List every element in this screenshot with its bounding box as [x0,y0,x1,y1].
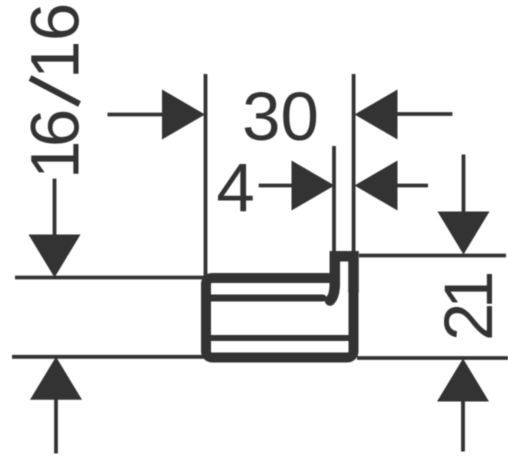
profile inner wall upper [210,295,323,302]
profile outline: outer body [206,256,354,357]
dim 4 left arrow tail [259,184,293,188]
profile hook (top right) [330,256,354,300]
top-right horizontal extension line y=255.5 [359,254,506,258]
dim 21 down-arrow line [462,155,466,215]
bottom-right up-arrow tail [461,400,465,452]
dim 16/16 vertical dimension line [53,179,57,237]
bottom-right up arrowhead [437,359,489,402]
bottom-left horizontal extension line y=356.8 [12,355,209,359]
dim 4 right arrow tail [396,184,428,188]
dim 4 left arrowhead [292,161,335,211]
svg-text:16: 16 [17,3,94,79]
dim 4 right arrowhead [355,161,398,211]
dimension text 16/16 slash stroke (rotated) [30,78,80,104]
dim 21 down arrowhead [438,212,490,255]
extension line hook-left vertical x=334 [332,146,336,252]
dim 16/16 down arrowhead [29,235,81,278]
top-left horizontal extension line y=277.5 [15,276,207,280]
dim 30 right arrow tail [396,112,452,116]
bottom-left up-arrow tail [54,398,58,453]
profile inner wall lower [208,335,352,341]
dim 30 left arrowhead [162,90,205,140]
dim 30 left arrow tail [108,113,165,117]
extension line left vertical x=205.5 [204,74,208,278]
bottom-right horizontal extension line y=358 [357,356,508,360]
dim 30 right arrowhead [355,90,398,140]
svg-text:4: 4 [216,149,254,226]
svg-text:16: 16 [17,109,94,179]
svg-text:21: 21 [430,271,507,341]
svg-text:30: 30 [242,78,319,155]
bottom-left up arrowhead [30,357,82,400]
extension line right vertical x=353.6 [352,74,356,253]
